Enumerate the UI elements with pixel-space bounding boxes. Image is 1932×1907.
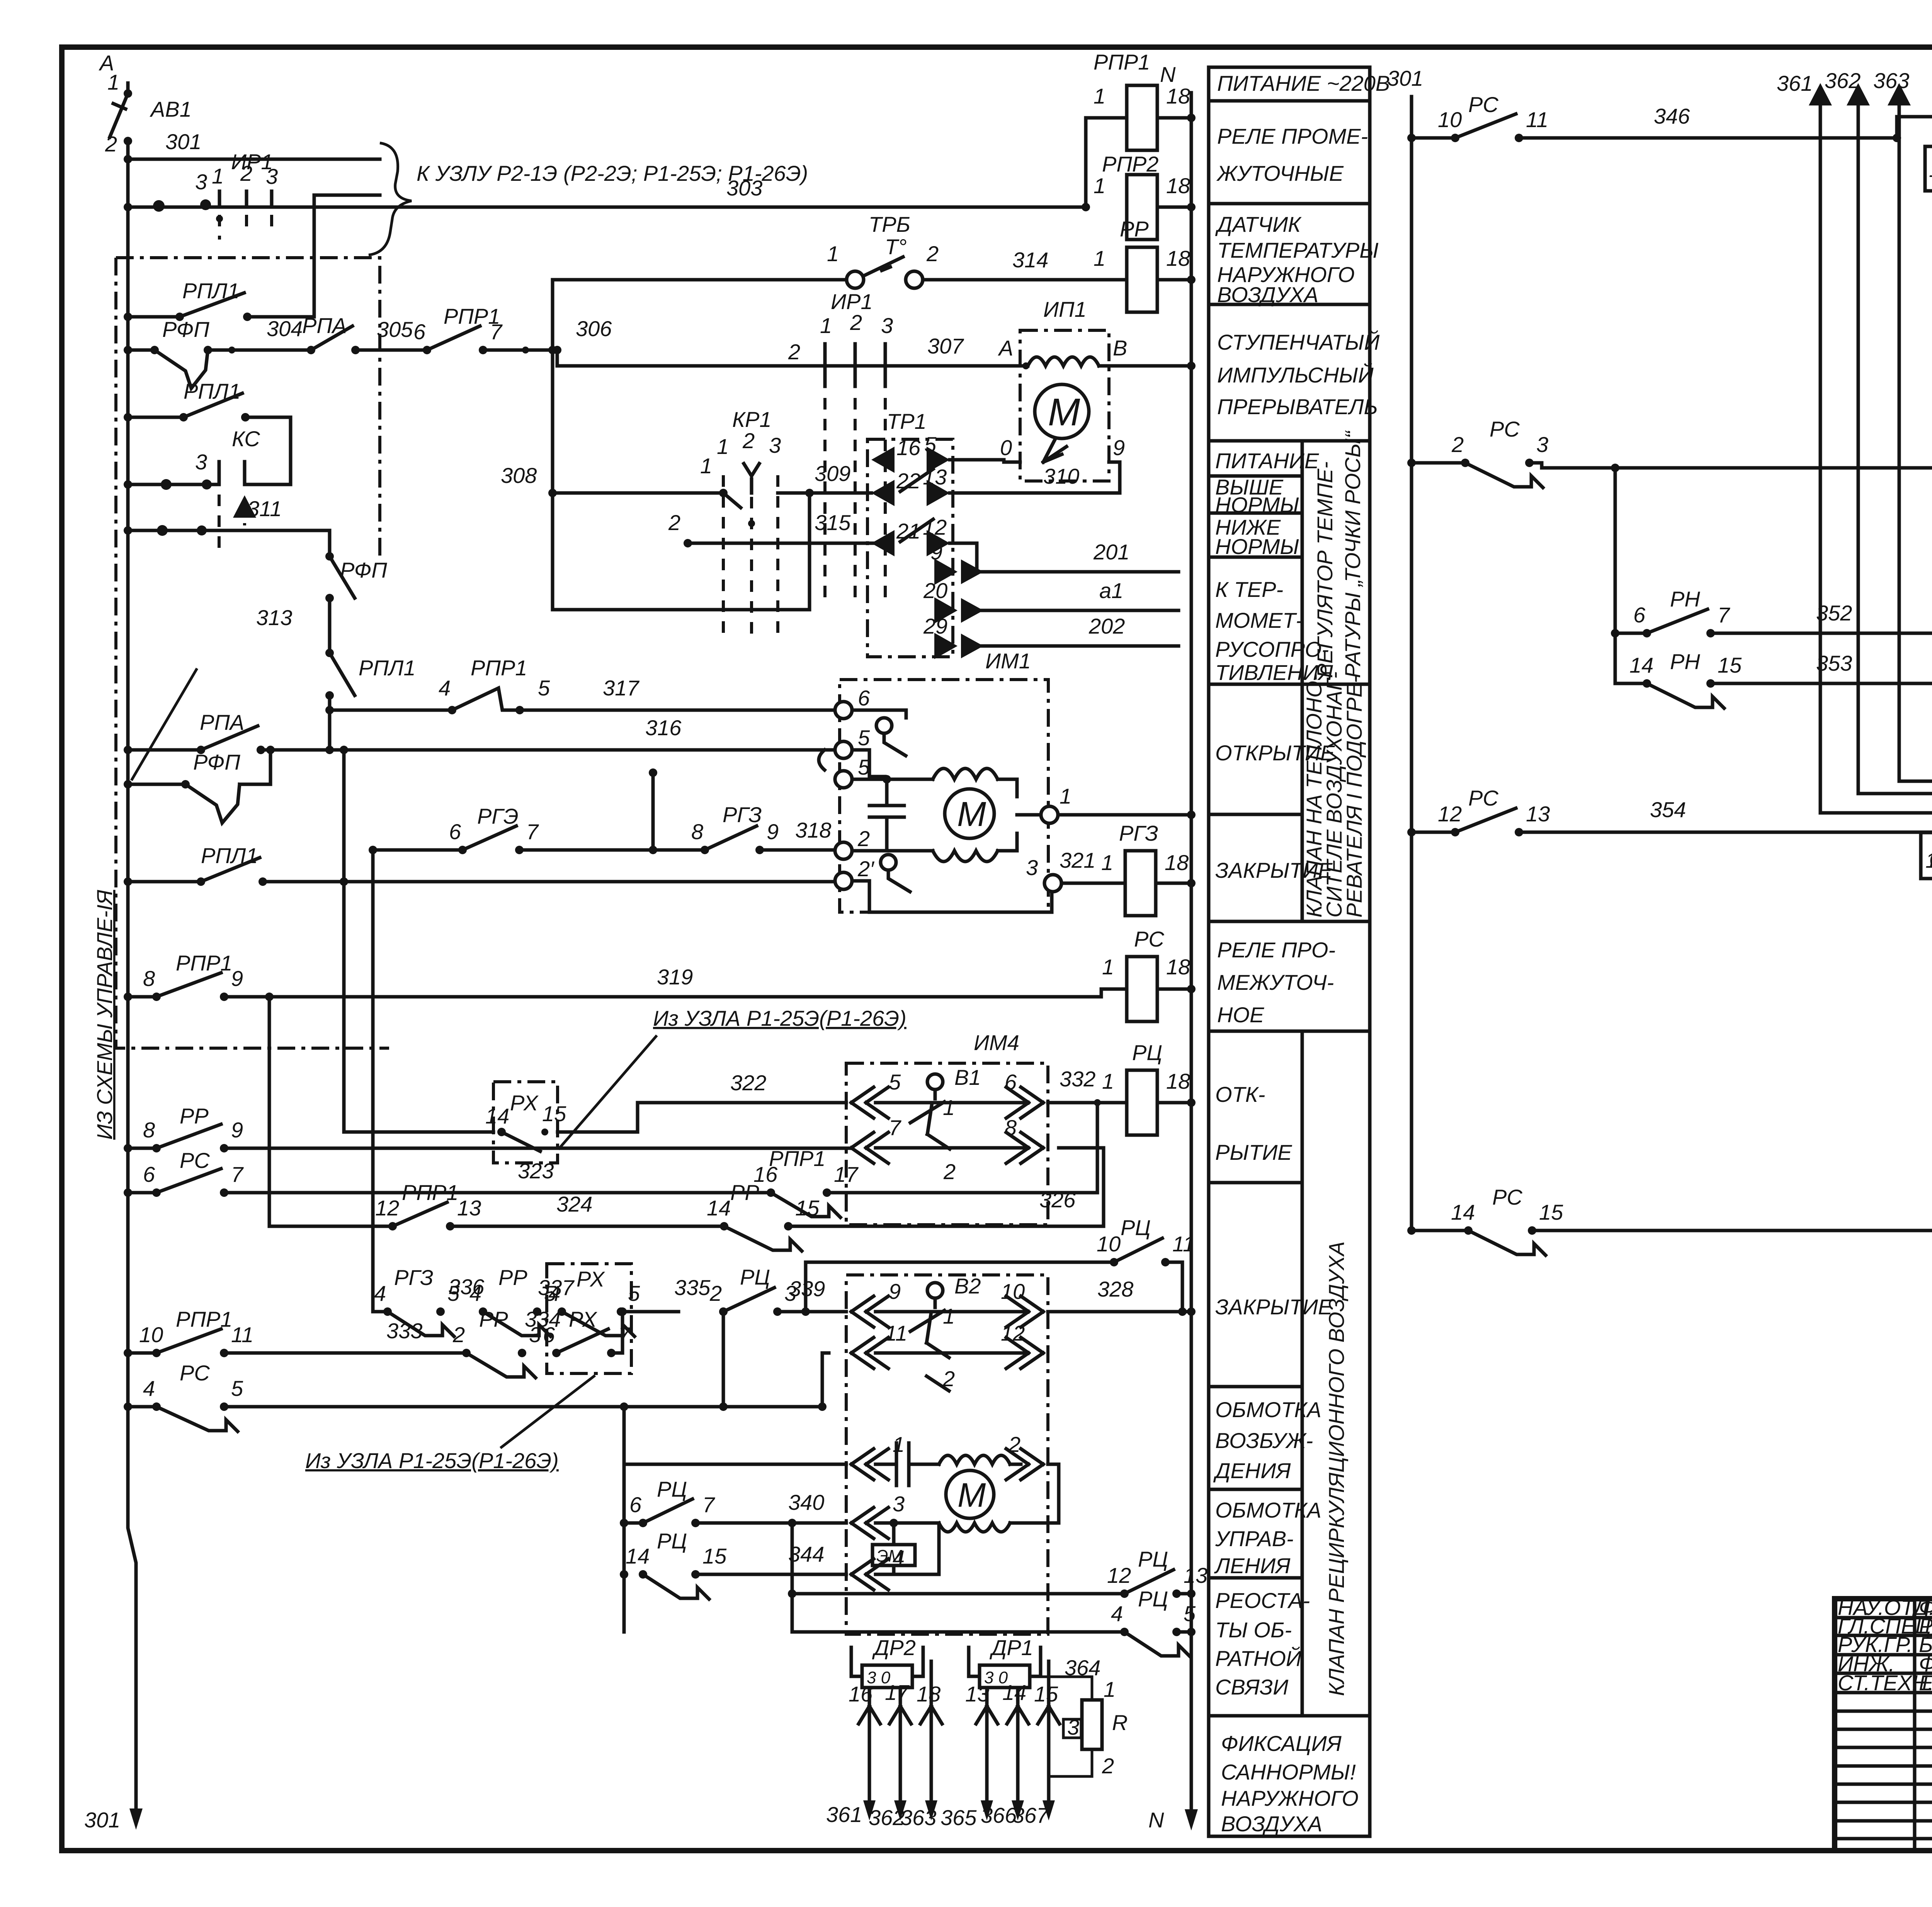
- svg-text:18: 18: [1165, 850, 1189, 875]
- svg-text:2′: 2′: [857, 857, 875, 881]
- svg-text:2: 2: [742, 428, 755, 453]
- svg-text:1: 1: [943, 1095, 955, 1120]
- svg-text:0: 0: [1000, 435, 1012, 460]
- wire 315: [688, 542, 893, 545]
- wire 311 vertical: [128, 530, 330, 556]
- contact РЦ 12-13: [791, 1523, 794, 1632]
- svg-text:1: 1: [1929, 157, 1932, 182]
- svg-text:14: 14: [485, 1104, 509, 1128]
- svg-text:12: 12: [923, 515, 947, 539]
- svg-text:1: 1: [107, 70, 119, 94]
- svg-text:13: 13: [965, 1682, 989, 1706]
- svg-text:М: М: [957, 795, 986, 834]
- wire ТР1-16 309 lead: [867, 491, 871, 495]
- wire ТР1-5 to ИП1-0: [950, 460, 1004, 462]
- svg-text:340: 340: [788, 1490, 824, 1514]
- svg-text:326: 326: [1039, 1188, 1076, 1212]
- svg-text:7: 7: [231, 1162, 244, 1186]
- ИМ1 motor: [945, 789, 994, 838]
- arrow 301 bottom: [129, 1808, 143, 1830]
- svg-text:ПРЕРЫВАТЕЛЬ: ПРЕРЫВАТЕЛЬ: [1217, 394, 1378, 419]
- wires 365 366 367 down: [985, 1724, 989, 1811]
- svg-text:РР: РР: [730, 1180, 759, 1205]
- svg-text:4: 4: [374, 1281, 386, 1305]
- svg-text:НАРУЖНОГО: НАРУЖНОГО: [1221, 1786, 1359, 1810]
- svg-text:1: 1: [1060, 784, 1071, 808]
- relay coil РПР2: [1127, 175, 1157, 240]
- dash-dot control boundary: [116, 258, 389, 1048]
- svg-text:6: 6: [449, 819, 461, 844]
- svg-text:4: 4: [439, 676, 451, 700]
- contact РПЛ1 row3: [124, 877, 132, 886]
- wire ТРБ left feed: [553, 280, 847, 610]
- svg-text:305: 305: [377, 317, 413, 342]
- svg-text:353: 353: [1816, 651, 1852, 675]
- svg-text:РПЛ1: РПЛ1: [182, 279, 239, 303]
- wire 308: [553, 491, 723, 495]
- svg-text:12: 12: [375, 1196, 399, 1220]
- svg-text:R: R: [1112, 1710, 1128, 1735]
- bus N left: [1190, 93, 1193, 1822]
- contact РПЛ1 row2: [124, 413, 132, 422]
- svg-text:РЕГУЛЯТОР ТЕМПЕ-: РЕГУЛЯТОР ТЕМПЕ-: [1313, 461, 1337, 678]
- contact РС 12-13 wire 354: [1407, 828, 1416, 836]
- ИМ1 lower switch: [881, 855, 896, 870]
- svg-text:18: 18: [917, 1682, 940, 1706]
- selector ИР1 bank2: [825, 344, 885, 386]
- svg-text:ОБМОТКА: ОБМОТКА: [1215, 1498, 1321, 1522]
- svg-text:РР: РР: [498, 1265, 527, 1290]
- wire 346 corner to БР1: [1897, 117, 1932, 161]
- terminal arrows 202: [934, 633, 957, 659]
- svg-text:В2: В2: [954, 1274, 981, 1298]
- contact РПА row 316: [124, 746, 132, 754]
- svg-text:СТ.ТЕХН.: СТ.ТЕХН.: [1838, 1671, 1932, 1695]
- wire РР 8-9 row: [124, 1144, 132, 1152]
- svg-text:1: 1: [827, 241, 839, 266]
- svg-text:6: 6: [143, 1162, 155, 1186]
- svg-text:13: 13: [1184, 1563, 1207, 1587]
- svg-text:10: 10: [139, 1322, 163, 1347]
- svg-text:3: 3: [1026, 855, 1038, 880]
- svg-text:1: 1: [1094, 84, 1105, 108]
- svg-text:363: 363: [1873, 68, 1909, 93]
- svg-text:15: 15: [1539, 1200, 1563, 1224]
- svg-text:5: 5: [889, 1070, 901, 1094]
- svg-text:1: 1: [1094, 246, 1105, 270]
- svg-text:РПР1: РПР1: [471, 656, 527, 680]
- wire 307 B lead to N: [1109, 364, 1191, 368]
- svg-text:15: 15: [1718, 653, 1742, 677]
- wire ИМ1-1 to N: [1058, 813, 1191, 817]
- svg-text:13: 13: [457, 1196, 481, 1220]
- svg-text:2: 2: [857, 826, 870, 851]
- riser РПЛ1 to КС: [289, 417, 293, 484]
- svg-text:319: 319: [657, 965, 693, 989]
- riser РХ feed vertical: [342, 750, 346, 1132]
- wire 309: [778, 491, 867, 495]
- svg-text:ВОЗДУХА: ВОЗДУХА: [1221, 1812, 1322, 1836]
- svg-text:1: 1: [1102, 1069, 1114, 1093]
- actuator ИМ5 box: [846, 1275, 1048, 1634]
- svg-text:3: 3: [769, 433, 781, 457]
- terminal block БР1: [1925, 146, 1932, 191]
- terminal block БР2: [1921, 833, 1932, 879]
- contact РС 4-5 row: [124, 1402, 132, 1411]
- svg-text:4: 4: [893, 1546, 905, 1570]
- svg-text:РР: РР: [180, 1104, 209, 1128]
- svg-text:9: 9: [1113, 435, 1125, 460]
- contact РС 14-15 row: [1407, 1226, 1416, 1235]
- svg-text:РС: РС: [1492, 1185, 1522, 1209]
- svg-text:ЕРИНА: ЕРИНА: [1919, 1671, 1932, 1695]
- middle legend column: [1209, 67, 1370, 1836]
- svg-text:2: 2: [942, 1367, 955, 1391]
- svg-text:333: 333: [386, 1319, 422, 1343]
- svg-text:5: 5: [538, 676, 550, 700]
- svg-text:317: 317: [603, 676, 639, 700]
- svg-text:322: 322: [730, 1071, 766, 1095]
- ИМ5 motor row 1-2: [624, 1463, 846, 1466]
- svg-text:6: 6: [543, 1322, 555, 1347]
- contact РПЛ1 row1: [124, 313, 132, 321]
- contact РПР1 4-5 wire 317: [330, 709, 452, 712]
- svg-text:9: 9: [930, 540, 942, 564]
- svg-text:НОРМЫ: НОРМЫ: [1215, 493, 1299, 517]
- svg-text:РПР1: РПР1: [176, 951, 232, 975]
- svg-text:1: 1: [943, 1304, 955, 1328]
- svg-text:МЕЖУТОЧ-: МЕЖУТОЧ-: [1217, 970, 1334, 994]
- ИМ1 terminals: [835, 702, 852, 719]
- svg-text:T°: T°: [885, 235, 907, 259]
- svg-text:12: 12: [1001, 1321, 1025, 1345]
- contact РР 14-15 hook wire 326: [720, 1222, 728, 1231]
- svg-text:346: 346: [1654, 104, 1690, 128]
- selector ИР1 bank1: [219, 191, 272, 207]
- svg-text:10: 10: [1001, 1279, 1025, 1304]
- ЭМ solenoid: [872, 1545, 915, 1565]
- wire РС 6-7 row 323: [124, 1188, 132, 1197]
- ДР1 box: [980, 1665, 1030, 1688]
- contact РФП chain vertical: [330, 556, 355, 598]
- svg-text:13: 13: [923, 465, 947, 489]
- switch box РХ 1: [493, 1082, 558, 1163]
- svg-text:МОМЕТ-: МОМЕТ-: [1215, 608, 1303, 632]
- svg-text:14: 14: [1002, 1680, 1026, 1705]
- contact РФП beak row: [124, 346, 132, 354]
- svg-text:РС: РС: [180, 1148, 210, 1173]
- svg-text:РР: РР: [479, 1307, 508, 1331]
- wire ИП1 bottom leads: [1004, 462, 1120, 493]
- ДР2 arrows: [851, 1647, 923, 1676]
- svg-text:РГЗ: РГЗ: [394, 1265, 434, 1290]
- svg-text:РАТНОЙ: РАТНОЙ: [1215, 1646, 1302, 1671]
- svg-text:РГЗ: РГЗ: [1119, 821, 1158, 845]
- svg-text:321: 321: [1060, 848, 1095, 872]
- svg-text:315: 315: [815, 510, 851, 535]
- svg-text:18: 18: [1166, 84, 1190, 108]
- svg-text:12: 12: [1438, 802, 1462, 826]
- svg-text:5: 5: [231, 1376, 243, 1401]
- svg-text:7: 7: [526, 819, 539, 844]
- wires 361 362 363 down: [868, 1724, 871, 1811]
- svg-text:5: 5: [858, 726, 870, 750]
- terminal arrows a1: [934, 597, 957, 624]
- wire 321: [1061, 882, 1125, 885]
- switch box РХ 2: [547, 1264, 631, 1373]
- svg-text:18: 18: [1166, 246, 1190, 270]
- svg-text:ТРБ: ТРБ: [869, 212, 910, 236]
- svg-text:6: 6: [413, 320, 426, 344]
- svg-text:18: 18: [1166, 173, 1190, 198]
- svg-text:РН: РН: [1670, 649, 1700, 674]
- ДР1 arrows: [969, 1647, 1041, 1676]
- svg-text:6: 6: [1005, 1070, 1017, 1094]
- contact РПР1 6-7: [423, 346, 431, 354]
- svg-text:2: 2: [926, 241, 939, 266]
- contact РПЛ1 chain vertical: [330, 653, 355, 750]
- svg-text:РПЛ1: РПЛ1: [201, 843, 258, 868]
- svg-text:361: 361: [826, 1802, 862, 1827]
- svg-text:9: 9: [767, 819, 779, 844]
- svg-text:СТУПЕНЧАТЫЙ: СТУПЕНЧАТЫЙ: [1217, 330, 1380, 354]
- svg-text:РПР2: РПР2: [1102, 152, 1158, 176]
- svg-text:РФП: РФП: [162, 317, 209, 342]
- contact РЦ 14-15 wire 344: [639, 1570, 647, 1579]
- svg-text:САННОРМЫ!: САННОРМЫ!: [1221, 1760, 1356, 1784]
- svg-text:АВ1: АВ1: [150, 97, 192, 121]
- contact РФП beak row2: [124, 780, 132, 789]
- svg-text:18: 18: [1166, 1069, 1190, 1093]
- svg-text:РЦ: РЦ: [657, 1529, 687, 1553]
- svg-text:ЗАКРЫТИЕ: ЗАКРЫТИЕ: [1215, 1295, 1333, 1319]
- svg-text:1: 1: [893, 1432, 905, 1457]
- svg-text:ЖУТОЧНЫЕ: ЖУТОЧНЫЕ: [1216, 161, 1344, 185]
- svg-text:СВЯЗИ: СВЯЗИ: [1215, 1675, 1289, 1699]
- wire РХ feed: [344, 1130, 493, 1134]
- svg-text:РПР1: РПР1: [444, 304, 500, 328]
- bus A vertical: [128, 83, 136, 1822]
- svg-text:332: 332: [1060, 1067, 1095, 1091]
- svg-text:1: 1: [820, 313, 832, 338]
- svg-text:2: 2: [668, 510, 680, 535]
- svg-text:РУСОПРО-: РУСОПРО-: [1215, 637, 1329, 661]
- svg-text:14: 14: [1451, 1200, 1475, 1224]
- relay coil РПР1: [1086, 118, 1127, 207]
- thermal contact ТРБ: [847, 271, 864, 288]
- svg-text:202: 202: [1088, 614, 1125, 638]
- svg-text:ПИТАНИЕ: ПИТАНИЕ: [1215, 449, 1319, 473]
- svg-text:РФП: РФП: [193, 750, 240, 774]
- svg-text:14: 14: [626, 1544, 650, 1568]
- svg-text:16: 16: [849, 1682, 873, 1706]
- wire 314: [923, 278, 1127, 282]
- svg-text:a1: a1: [1099, 578, 1123, 603]
- svg-text:N: N: [1160, 62, 1176, 87]
- svg-text:2: 2: [788, 340, 800, 364]
- svg-text:ИР1: ИР1: [231, 150, 273, 174]
- ДР2 box: [862, 1665, 912, 1688]
- svg-text:ФИКСАЦИЯ: ФИКСАЦИЯ: [1221, 1731, 1342, 1756]
- svg-text:7: 7: [618, 1322, 631, 1347]
- svg-text:РЦ: РЦ: [1138, 1547, 1168, 1571]
- chain contacts РГЗ-РР-РХ row: [373, 850, 388, 1312]
- svg-text:2: 2: [850, 310, 862, 335]
- svg-text:РН: РН: [1670, 587, 1700, 611]
- svg-text:2: 2: [1008, 1432, 1020, 1457]
- svg-text:РПЛ1: РПЛ1: [359, 656, 415, 680]
- svg-text:11: 11: [1526, 107, 1548, 132]
- svg-text:2: 2: [1102, 1754, 1114, 1778]
- svg-text:328: 328: [1097, 1277, 1133, 1301]
- svg-text:3: 3: [195, 450, 207, 474]
- svg-text:6: 6: [858, 686, 870, 710]
- relay coil РР: [1127, 247, 1157, 312]
- svg-text:10: 10: [1438, 107, 1462, 132]
- svg-text:301: 301: [84, 1808, 120, 1832]
- svg-text:1: 1: [1094, 173, 1105, 198]
- svg-text:8: 8: [1005, 1115, 1017, 1140]
- svg-text:5: 5: [628, 1281, 640, 1305]
- svg-text:363: 363: [900, 1805, 936, 1830]
- wire row 1578: [553, 493, 810, 610]
- svg-text:6: 6: [629, 1492, 642, 1517]
- svg-text:ИЗ СХЕМЫ УПРАВЛЕ-IЯ: ИЗ СХЕМЫ УПРАВЛЕ-IЯ: [92, 889, 117, 1140]
- ИМ1 right terminals: [1041, 806, 1058, 823]
- stepper interrupter ИП1: [1020, 330, 1109, 481]
- svg-text:ДЕНИЯ: ДЕНИЯ: [1213, 1458, 1291, 1483]
- contact РПР1 8-9 wire 319: [124, 993, 132, 1001]
- svg-text:364: 364: [1065, 1655, 1100, 1680]
- svg-text:7: 7: [889, 1115, 901, 1140]
- svg-text:КЛАПАН РЕЦИРКУЛЯЦИОННОГО В: КЛАПАН РЕЦИРКУЛЯЦИОННОГО ВОЗДУХА: [1324, 1241, 1349, 1696]
- ИМ5 motor: [946, 1470, 994, 1518]
- contact РГЗ 8-9 wire 318: [701, 846, 709, 854]
- svg-text:ТЕМПЕРАТУРЫ: ТЕМПЕРАТУРЫ: [1217, 238, 1379, 262]
- svg-text:316: 316: [645, 716, 682, 740]
- svg-text:3: 3: [195, 170, 207, 194]
- contact РС 2-3 step: [1407, 459, 1416, 467]
- svg-text:318: 318: [795, 818, 831, 842]
- svg-text:5: 5: [924, 432, 937, 457]
- svg-text:7: 7: [1718, 603, 1730, 627]
- ИМ5 arrow 3: [851, 1508, 888, 1538]
- leader diagonal: [131, 668, 197, 780]
- ИМ4 arrows close: [851, 1132, 888, 1163]
- svg-text:8: 8: [143, 966, 155, 991]
- svg-text:361: 361: [1777, 71, 1813, 95]
- svg-text:РПР1: РПР1: [1094, 50, 1150, 74]
- svg-text:ИП1: ИП1: [1043, 297, 1087, 321]
- contact РН 6-7 wire 352: [1614, 468, 1617, 683]
- svg-text:РЕЛЕ ПРО-: РЕЛЕ ПРО-: [1217, 938, 1335, 962]
- svg-text:РЕОСТА-: РЕОСТА-: [1215, 1588, 1310, 1613]
- svg-text:ИМПУЛЬСНЫЙ: ИМПУЛЬСНЫЙ: [1217, 363, 1374, 387]
- svg-text:17: 17: [885, 1680, 910, 1705]
- svg-text:20: 20: [923, 578, 947, 603]
- svg-text:ЛЕНИЯ: ЛЕНИЯ: [1214, 1553, 1291, 1578]
- svg-text:РЫТИЕ: РЫТИЕ: [1215, 1140, 1292, 1164]
- terminal arrows 201: [934, 559, 957, 585]
- svg-text:М: М: [957, 1476, 986, 1514]
- svg-text:18: 18: [1166, 955, 1190, 979]
- svg-text:А: А: [998, 336, 1013, 360]
- svg-text:РС: РС: [1468, 92, 1498, 117]
- svg-text:КС: КС: [232, 427, 260, 451]
- svg-text:314: 314: [1012, 248, 1048, 272]
- wire 328: [1048, 1310, 1182, 1314]
- svg-text:РЕВАТЕЛЯ I ПОДОГРЕ-: РЕВАТЕЛЯ I ПОДОГРЕ-: [1342, 676, 1366, 918]
- ИМ1 upper switch: [876, 718, 892, 733]
- ИМ5 arrow 4: [851, 1559, 888, 1590]
- svg-text:362: 362: [869, 1805, 905, 1830]
- svg-text:К ТЕР-: К ТЕР-: [1215, 577, 1283, 602]
- svg-text:367: 367: [1012, 1803, 1049, 1827]
- svg-text:Из УЗЛА Р1-25Э(Р1-26Э): Из УЗЛА Р1-25Э(Р1-26Э): [305, 1448, 559, 1473]
- actuator ИМ4 box: [846, 1063, 1048, 1225]
- svg-text:РПР1: РПР1: [176, 1307, 232, 1331]
- svg-text:РПА: РПА: [302, 313, 347, 338]
- svg-text:РЦ: РЦ: [1138, 1587, 1168, 1611]
- svg-text:ДАТЧИК: ДАТЧИК: [1215, 212, 1302, 236]
- svg-text:2: 2: [943, 1159, 956, 1184]
- dashed contact КС: [124, 480, 132, 489]
- svg-text:КР1: КР1: [732, 407, 772, 432]
- svg-text:РС: РС: [1134, 927, 1164, 951]
- svg-text:ВОЗБУЖ-: ВОЗБУЖ-: [1215, 1428, 1313, 1453]
- relay coil РГЗ: [1125, 851, 1156, 916]
- title block grid: [1835, 1599, 1932, 1851]
- svg-text:366: 366: [981, 1803, 1017, 1827]
- wire 322: [558, 1103, 846, 1132]
- svg-text:РЦ: РЦ: [740, 1265, 770, 1289]
- svg-text:ПИТАНИЕ ~220В: ПИТАНИЕ ~220В: [1217, 71, 1390, 95]
- svg-text:УПРАВ-: УПРАВ-: [1215, 1526, 1294, 1551]
- svg-text:11: 11: [1172, 1232, 1195, 1256]
- svg-text:РЦ: РЦ: [1121, 1215, 1151, 1240]
- actuator ИМ1 box: [840, 680, 1048, 912]
- svg-text:РПА: РПА: [200, 710, 244, 734]
- svg-text:РХ: РХ: [510, 1091, 539, 1115]
- svg-text:307: 307: [927, 334, 964, 358]
- resistor R wire 364: [1041, 1677, 1092, 1700]
- ИМ5 open row В2: [851, 1296, 888, 1327]
- svg-text:4: 4: [469, 1281, 481, 1305]
- contact РГЭ 6-7: [373, 848, 463, 852]
- svg-text:РС: РС: [1468, 786, 1498, 810]
- svg-text:324: 324: [556, 1192, 592, 1216]
- svg-text:РФП: РФП: [340, 558, 387, 582]
- svg-text:15: 15: [795, 1196, 820, 1220]
- svg-text:3: 3: [893, 1492, 905, 1516]
- svg-text:2: 2: [709, 1281, 722, 1305]
- svg-text:10: 10: [1097, 1232, 1121, 1256]
- svg-text:ДР2: ДР2: [872, 1635, 916, 1660]
- svg-text:9: 9: [231, 1118, 243, 1142]
- svg-text:ОБМОТКА: ОБМОТКА: [1215, 1397, 1321, 1422]
- svg-text:N: N: [1148, 1808, 1164, 1832]
- svg-text:14: 14: [1629, 653, 1653, 677]
- svg-text:6: 6: [1633, 603, 1646, 627]
- svg-text:РГЭ: РГЭ: [477, 804, 519, 828]
- contact РЦ 6-7 wire 340: [639, 1519, 647, 1527]
- contact РПА row: [307, 346, 315, 354]
- svg-text:4: 4: [548, 1281, 560, 1305]
- svg-text:РС: РС: [180, 1361, 210, 1385]
- svg-text:8: 8: [691, 819, 703, 844]
- ИМ5 close row: [851, 1338, 888, 1368]
- svg-text:3: 3: [1536, 432, 1548, 457]
